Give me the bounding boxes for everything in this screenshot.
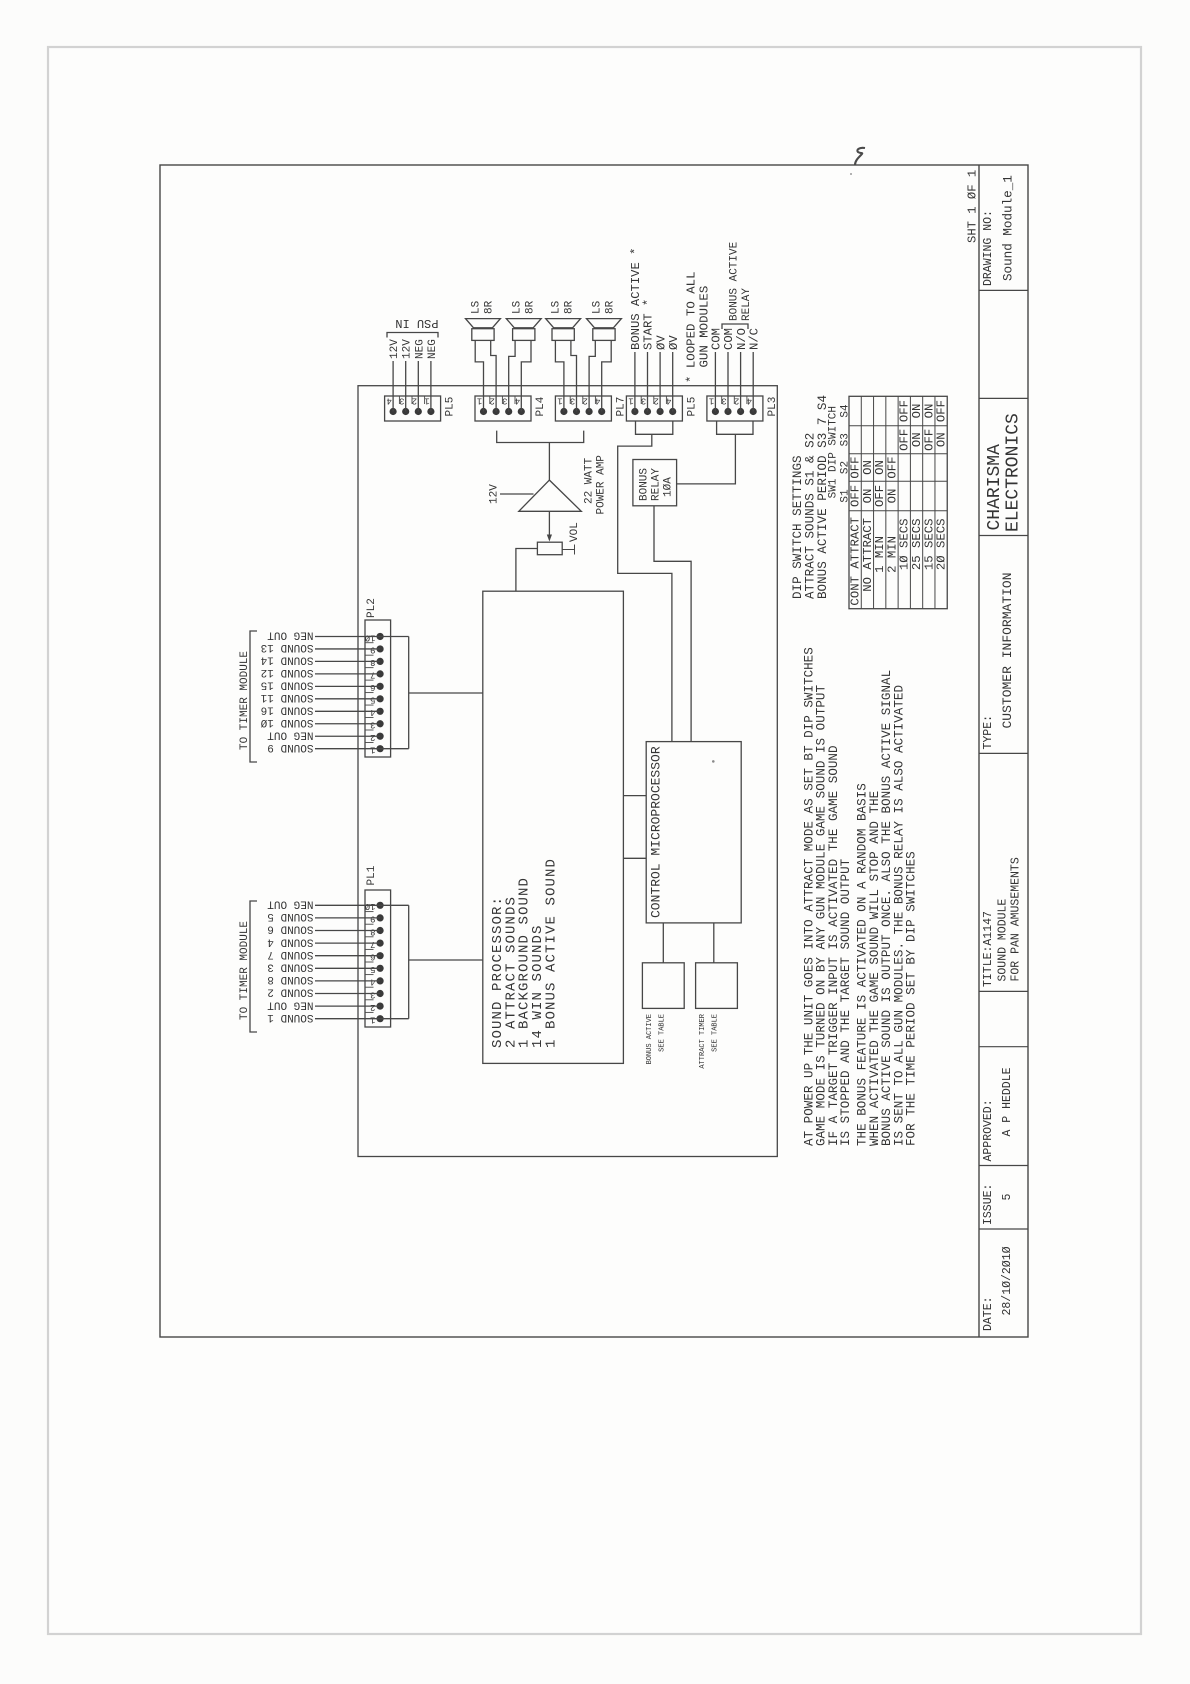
wires PL1 pins to labels [315,1018,380,1020]
svg-text:BONUS ACTIVE: BONUS ACTIVE [729,241,741,321]
bracket BONUS ACTIVE RELAY [722,324,748,329]
PL7 pins [560,408,567,415]
svg-text:1: 1 [477,396,482,406]
drawing frame border [160,165,1028,1337]
svg-text:PL5: PL5 [686,397,698,417]
svg-text:2Ø SECS: 2Ø SECS [935,519,949,571]
svg-text:LS: LS [470,300,482,314]
svg-text:7: 7 [370,670,375,680]
block CONTROL MICROPROCESSOR [646,742,741,923]
svg-text:SOUND 4: SOUND 4 [267,935,314,947]
svg-text:1: 1 [424,396,429,406]
svg-text:SEE TABLE: SEE TABLE [712,1014,720,1052]
svg-text:5: 5 [370,695,375,705]
module boundary box [358,386,777,1157]
svg-text:IS STOPPED AND THE TARGET SOUN: IS STOPPED AND THE TARGET SOUND OUTPUT [839,858,853,1146]
svg-text:SOUND 1Ø: SOUND 1Ø [260,716,313,728]
svg-text:SOUND 11: SOUND 11 [260,691,313,703]
svg-text:SOUND 1: SOUND 1 [267,1011,314,1023]
bracket PL1 common [380,1018,409,1020]
svg-text:Sound Module_1: Sound Module_1 [1002,175,1016,281]
svg-text:RELAY: RELAY [651,468,663,501]
wire relay coil to microprocessor [654,506,691,742]
svg-text:CUSTOMER INFORMATION: CUSTOMER INFORMATION [1000,572,1015,728]
wire amp output [548,443,550,481]
wires PL5 out pins to labels [634,352,636,412]
svg-text:PL1: PL1 [366,865,378,885]
wire sound processor to micro (2) [623,795,646,797]
svg-text:8R: 8R [524,300,536,314]
PL4 pins [480,408,487,415]
svg-text:LS: LS [551,300,563,314]
svg-text:7: 7 [370,939,375,949]
svg-text:4: 4 [515,396,520,406]
wires speaker LS4 to connector [589,340,595,411]
svg-text:2: 2 [653,396,658,406]
bracket TO TIMER MODULE (PL1) [250,901,257,1032]
svg-text:ISSUE:: ISSUE: [982,1184,995,1225]
svg-text:6: 6 [370,952,375,962]
svg-text:1: 1 [709,396,714,406]
block SOUND PROCESSOR [483,591,624,1063]
svg-text:1Ø: 1Ø [364,901,375,911]
wires PL3 pins to labels [714,352,716,412]
svg-text:SOUND 16: SOUND 16 [261,703,314,715]
block bonus active table [642,963,684,1009]
connector PL1 [365,890,391,1027]
svg-text:ON: ON [885,489,899,504]
svg-text:1 BONUS ACTIVE SOUND: 1 BONUS ACTIVE SOUND [543,858,559,1048]
svg-text:3: 3 [370,720,375,730]
connector PL5 [385,396,441,421]
bracket amp output to speakers [497,431,584,443]
svg-text:4: 4 [666,396,671,406]
bracket PL3 pins [717,421,753,434]
svg-text:SOUND 3: SOUND 3 [267,961,313,973]
connector PL7 [555,396,611,421]
PL3 pins [712,408,719,415]
connector PL3 [707,396,763,421]
handwritten squiggle [855,148,865,165]
wire START* to microprocessor [618,434,672,741]
wire micro to attract timer table [713,923,715,963]
speck [712,760,715,763]
svg-text:FOR PAN AMUSEMENTS: FOR PAN AMUSEMENTS [1010,857,1023,981]
svg-text:OFF: OFF [885,456,899,478]
svg-text:8: 8 [370,657,375,667]
svg-text:1: 1 [628,396,633,406]
connector PL2 [365,620,391,757]
svg-text:SHT 1 ØF 1: SHT 1 ØF 1 [966,170,980,243]
svg-text:LS: LS [591,300,603,314]
svg-text:3: 3 [502,396,507,406]
block attract timer table [696,963,738,1009]
wires speaker LS2 to connector [509,340,515,411]
svg-text:4: 4 [595,396,600,406]
speaker LS1 8R [472,329,494,341]
svg-text:BONUS: BONUS [639,468,651,501]
svg-text:8R: 8R [483,300,495,314]
svg-text:LS: LS [511,300,523,314]
svg-text:DRAWING NO:: DRAWING NO: [982,210,995,286]
svg-text:4: 4 [747,396,752,406]
svg-text:PL2: PL2 [366,598,378,618]
svg-text:RELAY: RELAY [741,288,753,321]
title block strip [978,165,980,1337]
relay BONUS RELAY 10A [633,460,677,506]
bracket PL2 common [380,748,409,750]
wires speaker LS1 to connector [475,340,483,411]
svg-text:DATE:: DATE: [982,1296,995,1331]
wire micro to bonus active table [662,923,664,963]
svg-text:3: 3 [721,396,726,406]
wire 12V to amp [500,493,534,495]
svg-text:8R: 8R [564,300,576,314]
svg-text:4: 4 [386,396,391,406]
svg-text:TITLE:A1147: TITLE:A1147 [982,911,995,987]
wires PL5 PSU pins to labels [392,361,394,412]
svg-text:1: 1 [370,745,375,755]
svg-text:4: 4 [370,977,375,987]
svg-text:9: 9 [370,914,375,924]
pot end-stop symbol [562,549,574,551]
svg-text:PSU IN: PSU IN [395,316,438,330]
svg-text:2: 2 [582,396,587,406]
svg-text:TO TIMER MODULE: TO TIMER MODULE [239,921,251,1020]
svg-text:2: 2 [489,396,494,406]
svg-text:PL7: PL7 [615,397,627,417]
svg-text:SOUND MODULE: SOUND MODULE [997,899,1010,982]
svg-text:NEG: NEG [427,339,439,359]
svg-text:SOUND 15: SOUND 15 [261,679,314,691]
svg-text:12V: 12V [402,339,414,359]
svg-text:5: 5 [1001,1193,1014,1200]
bracket TO TIMER MODULE (PL2) [250,631,257,762]
svg-text:SEE TABLE: SEE TABLE [659,1014,667,1052]
svg-text:2: 2 [370,1002,375,1012]
speaker LS2 8R [513,329,535,341]
svg-text:N/C: N/C [747,328,761,350]
wire relay contacts to PL3 bracket [677,434,736,484]
svg-text:2: 2 [734,396,739,406]
svg-text:1: 1 [370,1015,375,1025]
svg-text:5: 5 [370,964,375,974]
svg-text:NEG OUT: NEG OUT [267,998,314,1010]
bracket PL5 output pins [636,421,673,434]
svg-text:APPROVED:: APPROVED: [982,1099,995,1161]
wires PL2 pins to labels [315,748,380,750]
wire amp input wiper arrow [548,511,550,539]
op-amp 22 WATT POWER AMP [519,480,582,511]
svg-text:28/1Ø/2Ø1Ø: 28/1Ø/2Ø1Ø [1001,1246,1014,1315]
speaker LS4 8R [593,329,615,341]
wire sound processor to micro (1) [623,857,646,859]
wire PL1 bus to sound processor [409,959,483,961]
PL5 pins [390,408,397,415]
svg-text:SW1 DIP SWITCH: SW1 DIP SWITCH [828,406,840,498]
svg-text:1ØA: 1ØA [663,477,675,497]
bracket PSU IN [387,333,438,338]
svg-text:2: 2 [370,732,375,742]
svg-text:8R: 8R [604,300,616,314]
svg-text:PL4: PL4 [535,396,547,416]
svg-text:3: 3 [370,989,375,999]
svg-text:TYPE:: TYPE: [982,715,995,750]
svg-text:NEG OUT: NEG OUT [267,898,314,910]
svg-text:NEG OUT: NEG OUT [267,728,314,740]
svg-text:PL3: PL3 [767,397,779,417]
PL5 pins [631,408,638,415]
svg-text:SOUND 7: SOUND 7 [267,948,313,960]
PL1 pins [377,1015,384,1022]
svg-text:BONUS ACTIVE: BONUS ACTIVE [646,1014,654,1064]
svg-text:GUN MODULES: GUN MODULES [698,286,712,368]
svg-text:CHARISMA: CHARISMA [985,444,1005,531]
svg-text:CONTROL MICROPROCESSOR: CONTROL MICROPROCESSOR [649,746,664,918]
svg-text:SOUND 5: SOUND 5 [267,910,313,922]
svg-text:NEG: NEG [414,339,426,359]
speaker LS3 8R [552,329,574,341]
wire pot to sound processor [516,549,538,592]
svg-text:ØV: ØV [667,335,681,350]
svg-text:NEG OUT: NEG OUT [267,629,314,641]
svg-text:PL5: PL5 [445,397,457,417]
svg-text:ELECTRONICS: ELECTRONICS [1004,413,1024,532]
svg-text:3: 3 [641,396,646,406]
svg-text:12V: 12V [489,484,501,504]
svg-text:SOUND 8: SOUND 8 [267,973,313,985]
svg-text:SOUND 12: SOUND 12 [261,666,314,678]
svg-text:1: 1 [557,396,562,406]
dip switch table [849,396,947,608]
PL2 pins [377,745,384,752]
svg-text:1Ø: 1Ø [364,632,375,642]
svg-text:* LOOPED TO ALL: * LOOPED TO ALL [685,271,699,383]
svg-text:S3: S3 [840,433,852,446]
svg-text:2: 2 [412,396,417,406]
wires speaker LS3 to connector [555,340,564,411]
svg-text:8: 8 [370,926,375,936]
svg-text:S4: S4 [840,404,852,418]
svg-text:ON: ON [935,432,949,447]
wire PL2 bus to sound processor [409,692,483,694]
svg-text:4: 4 [370,707,375,717]
svg-text:SOUND 13: SOUND 13 [261,641,314,653]
svg-text:VOL: VOL [569,522,581,542]
svg-text:9: 9 [370,645,375,655]
svg-text:3: 3 [399,396,404,406]
svg-text:SOUND 6: SOUND 6 [267,923,313,935]
svg-text:3: 3 [570,396,575,406]
svg-text:OFF: OFF [935,400,949,422]
svg-text:A P HEDDLE: A P HEDDLE [1001,1067,1014,1136]
svg-text:POWER AMP: POWER AMP [596,455,608,515]
svg-text:SOUND 2: SOUND 2 [267,986,313,998]
svg-text:TO TIMER MODULE: TO TIMER MODULE [239,651,251,750]
svg-text:SOUND 14: SOUND 14 [260,654,313,666]
svg-text:22 WATT: 22 WATT [584,457,596,504]
svg-text:FOR THE TIME PERIOD SET BY DIP: FOR THE TIME PERIOD SET BY DIP SWITCHES [905,851,919,1146]
svg-text:SOUND 9: SOUND 9 [267,741,313,753]
svg-text:ATTRACT TIMER: ATTRACT TIMER [699,1013,707,1068]
connector PL5 [626,396,682,421]
connector PL4 [475,396,531,421]
svg-text:12V: 12V [389,339,401,359]
potentiometer VOL [537,542,562,555]
svg-text:6: 6 [370,682,375,692]
